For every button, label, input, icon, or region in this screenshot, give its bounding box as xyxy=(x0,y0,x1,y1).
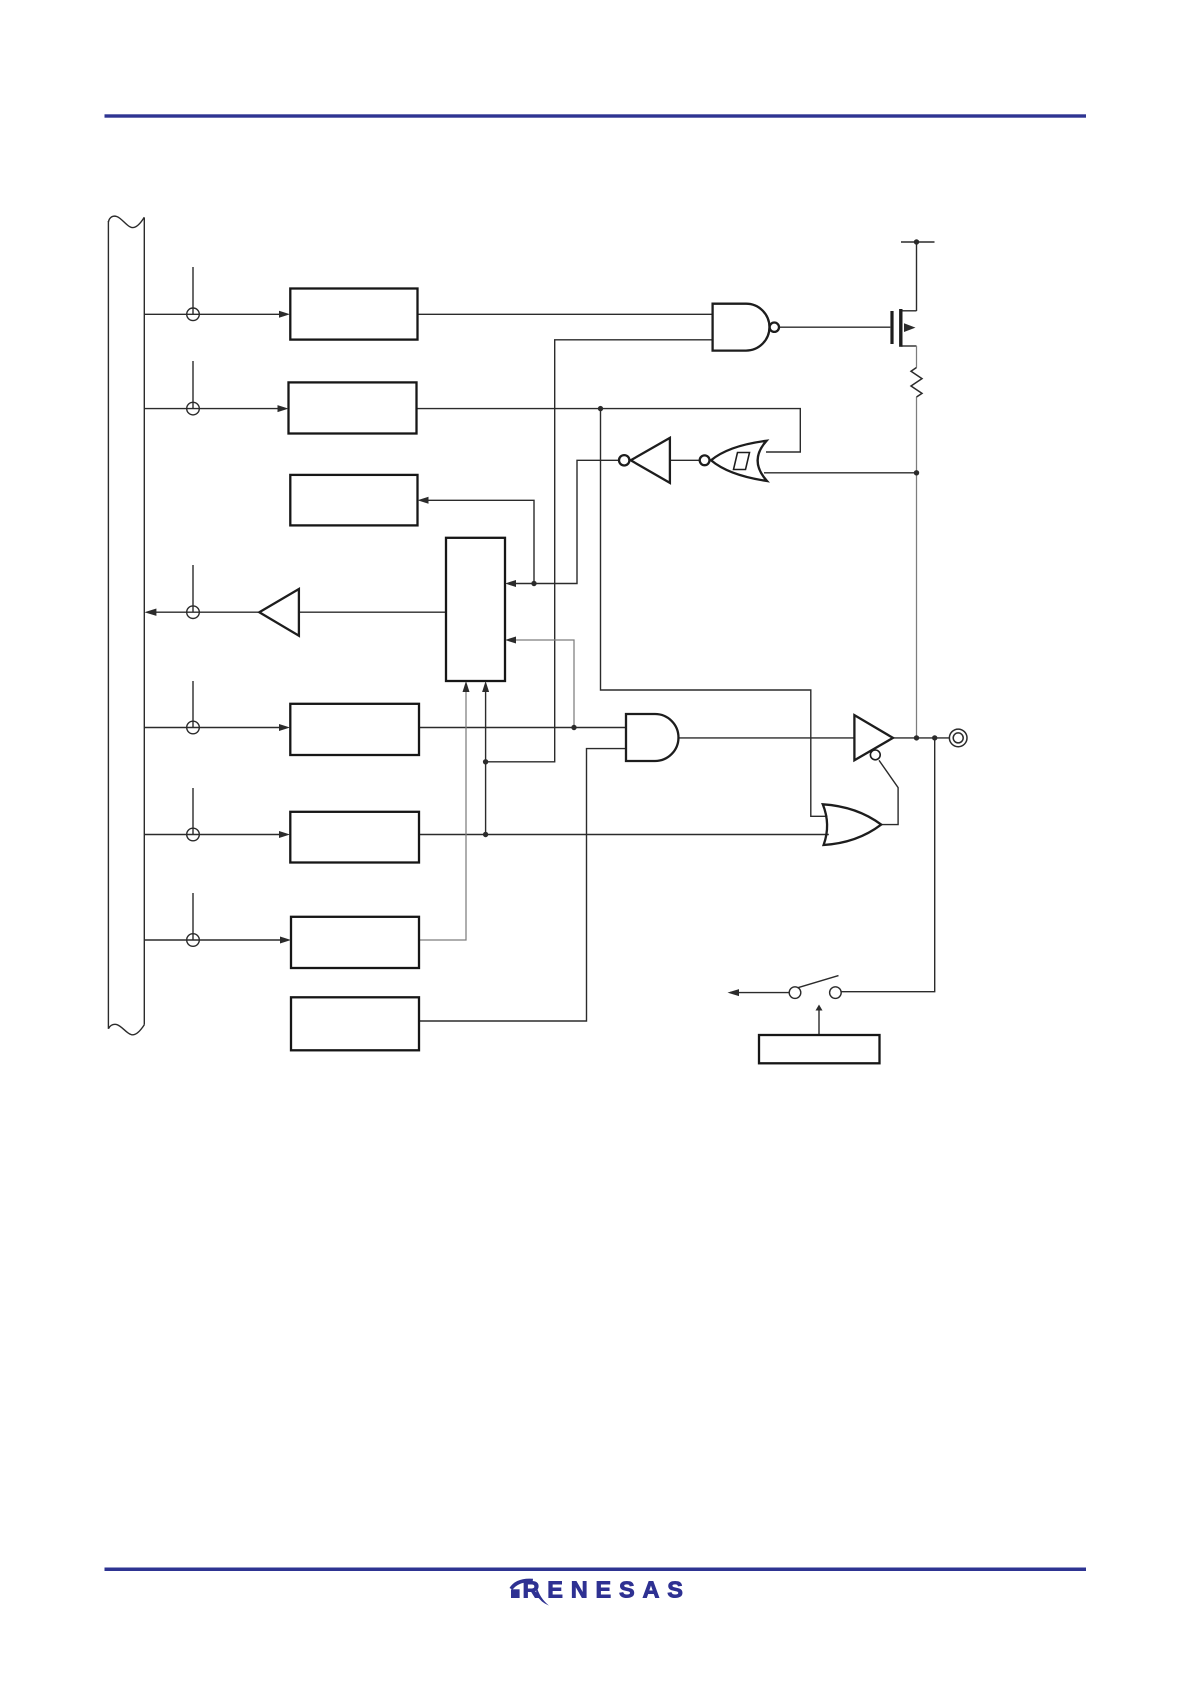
svg-text:RENESAS: RENESAS xyxy=(523,1577,691,1603)
